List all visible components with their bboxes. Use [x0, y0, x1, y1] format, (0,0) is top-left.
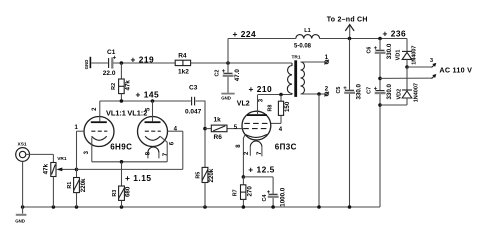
node +224 riser [226, 61, 230, 65]
grid line to pin 4 [77, 168, 183, 170]
junction VR1 bottom / rail [52, 205, 56, 209]
ground symbol bottom left [15, 207, 26, 223]
diode VD2 1N4007 [396, 83, 419, 105]
potentiometer VR1 47k [43, 154, 77, 207]
svg-text:270: 270 [247, 186, 254, 197]
capacitor C5 330.0 [336, 39, 362, 208]
svg-text:VL1:2: VL1:2 [127, 109, 147, 118]
svg-text:R1: R1 [67, 182, 73, 189]
cathode [145, 136, 160, 140]
tube VL1:2 [127, 101, 182, 162]
wire: C3 to R6/R5 node [195, 101, 205, 167]
tube VL2 6P3S [227, 95, 297, 177]
grid [145, 130, 161, 132]
svg-text:TR1: TR1 [292, 54, 301, 60]
junction R7 bottom / rail [242, 205, 246, 209]
svg-text:+ 224: + 224 [233, 29, 257, 39]
svg-text:AC 110 V: AC 110 V [439, 65, 472, 74]
grid g1 [243, 128, 270, 130]
junction XS1 shell / rail [21, 205, 25, 209]
capacitor C1 [103, 49, 117, 77]
resistor R2 47k [111, 63, 131, 101]
svg-text:1N4007: 1N4007 [411, 46, 417, 65]
diode VD1 1N4007 [396, 39, 418, 68]
svg-text:680: 680 [125, 186, 132, 197]
resistor R1 220k [67, 169, 87, 207]
svg-text:47k: 47k [124, 80, 131, 91]
svg-text:47.0: 47.0 [234, 69, 241, 82]
wire: VD2 anode to C7 bottom column [380, 104, 407, 106]
inductor L1 5-0.08 [294, 28, 320, 49]
svg-text:VL1:1: VL1:1 [106, 109, 126, 118]
svg-text:R6: R6 [214, 134, 223, 141]
grid [91, 130, 107, 132]
junction VL1:2 anode riser / +145 line [151, 99, 155, 103]
svg-text:VL2: VL2 [237, 100, 250, 107]
secondary winding [301, 62, 305, 94]
svg-text:1k: 1k [214, 117, 222, 124]
svg-text:GND: GND [221, 96, 231, 101]
svg-text:R4: R4 [178, 52, 187, 59]
svg-text:To 2–nd CH: To 2–nd CH [327, 16, 368, 23]
node +219 [120, 61, 124, 65]
cathode [92, 136, 107, 140]
svg-text:1k2: 1k2 [178, 68, 189, 75]
wire: terminal 2 node down to ground rail [318, 94, 320, 207]
svg-text:330.0: 330.0 [386, 43, 393, 59]
svg-text:+: + [374, 46, 378, 52]
node AC1 [405, 65, 409, 69]
anode [99, 101, 101, 121]
resistor R4 1k2 [175, 52, 190, 75]
node C6 top [378, 37, 382, 41]
wire: R4 to node 224 and on to transformer primary top [191, 62, 292, 64]
svg-text:R5: R5 [195, 172, 201, 179]
primary winding [287, 63, 292, 95]
svg-text:+ 12.5: + 12.5 [248, 164, 275, 174]
junction C4 bottom / rail [271, 205, 275, 209]
svg-text:R7: R7 [233, 189, 239, 196]
svg-text:+ 236: + 236 [383, 29, 407, 39]
svg-text:330.0: 330.0 [386, 83, 393, 99]
junction R5 bottom / rail [203, 205, 207, 209]
resistor R5 220k [195, 167, 215, 207]
anode [152, 101, 154, 121]
junction R1 bottom / rail [75, 205, 79, 209]
ground rail [23, 206, 380, 208]
grid g2 [244, 122, 269, 124]
svg-text:+: + [343, 86, 347, 92]
svg-text:1000.0: 1000.0 [279, 187, 286, 206]
svg-text:C1: C1 [107, 49, 116, 56]
heater [148, 147, 159, 153]
core [294, 60, 297, 97]
svg-text:+ 210: + 210 [249, 84, 273, 94]
wire: secondary top to terminal 1 [301, 61, 325, 63]
svg-text:220k: 220k [80, 178, 87, 192]
wire: secondary bottom to terminal 2 [301, 93, 325, 95]
node C5 top [348, 37, 352, 41]
wire: AC line 1 [407, 66, 432, 68]
svg-text:C6: C6 [367, 47, 373, 54]
svg-text:+: + [222, 69, 226, 75]
anode [257, 95, 259, 115]
wire: VD1 anode down to VD2 cathode [406, 67, 408, 90]
resistor R3 680 [112, 162, 132, 207]
svg-text:C2: C2 [215, 70, 221, 77]
svg-text:330.0: 330.0 [356, 83, 363, 99]
wire: primary bottom to anode node [258, 94, 292, 96]
resistor R6 1k [205, 117, 227, 141]
capacitor C4 1000.0 [243, 177, 286, 207]
node M (C6/C7 junction, AC2) [378, 77, 382, 81]
terminal 2 [324, 86, 329, 96]
capacitor C6 330.0 [367, 39, 393, 91]
capacitor C3 0.047 [185, 85, 202, 116]
terminal 1 [324, 55, 329, 64]
To 2-nd CH arrow [327, 16, 368, 38]
junction R3 bottom / rail [120, 205, 124, 209]
junction R2 bottom / +145 line [120, 99, 124, 103]
cathode network R7/C4 [242, 175, 246, 179]
svg-text:R8: R8 [268, 105, 274, 112]
capacitor C2 47.0 [215, 63, 241, 93]
svg-text:VR1: VR1 [57, 156, 67, 162]
svg-text:5-0.08: 5-0.08 [294, 44, 312, 50]
svg-text:22.0: 22.0 [103, 70, 116, 77]
svg-text:GND: GND [84, 60, 89, 70]
node grid/wiper [75, 168, 79, 172]
wire: C1 to node 219 to R4 [113, 62, 175, 64]
svg-text:3: 3 [430, 58, 433, 64]
resistor R7 270 [233, 177, 254, 207]
svg-text:0.047: 0.047 [185, 109, 202, 116]
svg-text:150: 150 [284, 101, 291, 112]
svg-text:+ 219: + 219 [131, 54, 155, 64]
svg-text:C5: C5 [336, 87, 342, 94]
top rail +224/+236 [228, 38, 296, 40]
junction C5 bottom / rail [348, 205, 352, 209]
svg-text:XS1: XS1 [18, 141, 27, 147]
svg-text:VD2: VD2 [396, 89, 402, 100]
wire: AC line 2 from node M [380, 77, 432, 79]
svg-text:C4: C4 [262, 195, 268, 202]
junction speaker return / rail [317, 205, 321, 209]
cathode [245, 134, 267, 137]
+145 anode line [100, 100, 191, 102]
svg-text:6Н9С: 6Н9С [110, 143, 132, 152]
svg-text:C7: C7 [367, 87, 373, 94]
tube VL1:1 [75, 101, 133, 169]
cathode bus VL1 [92, 161, 167, 163]
resistor R8 150 (screen) [268, 95, 292, 134]
svg-text:47k: 47k [43, 163, 50, 174]
svg-text:+: + [374, 86, 378, 92]
wire: gnd bar to C1 [91, 62, 108, 64]
ground symbol under C2 [221, 93, 235, 101]
node VD2 anode return [378, 103, 382, 107]
svg-text:C3: C3 [189, 85, 198, 92]
svg-text:L1: L1 [304, 28, 310, 34]
svg-text:+ 145: + 145 [136, 90, 160, 100]
svg-text:+ 1.15: + 1.15 [125, 173, 152, 183]
AC plug arrows [430, 58, 472, 79]
svg-text:R2: R2 [111, 83, 117, 90]
svg-text:GND: GND [15, 218, 25, 223]
svg-text:1N4007: 1N4007 [413, 83, 419, 102]
input jack XS1 [16, 141, 54, 207]
svg-text:R3: R3 [112, 190, 118, 197]
svg-text:6П3С: 6П3С [275, 142, 297, 151]
GND input terminal bar (top left) [84, 57, 91, 69]
transformer TR1 [287, 54, 304, 96]
svg-text:220k: 220k [208, 168, 215, 182]
svg-text:VD1: VD1 [396, 50, 402, 61]
capacitor C7 330.0 [367, 83, 393, 207]
heater [250, 141, 262, 147]
